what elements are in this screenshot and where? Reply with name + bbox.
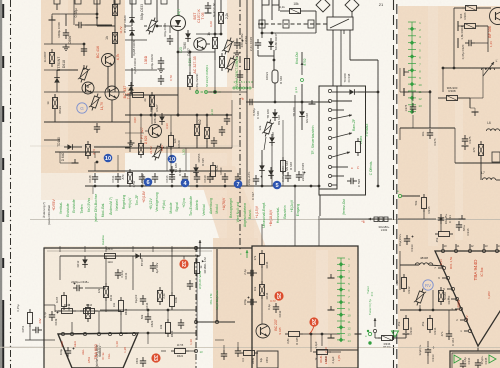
bluenum 10b (168, 155, 177, 164)
wire pin stub (71, 322, 73, 332)
capacitor extraR (410, 106, 416, 108)
resistor R640b (317, 350, 328, 355)
top connector boxes (262, 0, 269, 5)
resistor R633a (113, 5, 118, 16)
junction (196, 185, 199, 188)
pin trapezoid top (97, 332, 100, 335)
capacitor C632 (78, 22, 80, 28)
bluenum 7 (234, 180, 243, 189)
capacitor C640h (249, 99, 251, 105)
junction (377, 91, 380, 94)
wire (125, 39, 147, 41)
dash line pads (259, 20, 265, 28)
capacitor C320 (468, 40, 470, 46)
capacitor C634 (234, 42, 240, 44)
junction (442, 67, 445, 70)
capacitor C598 (350, 178, 352, 184)
wire (94, 162, 96, 171)
connector pin (328, 108, 331, 111)
faint horizontal scan line 2 (30, 145, 240, 147)
capacitor edge2 (250, 299, 252, 305)
tbar (49, 19, 56, 21)
wire (399, 68, 401, 92)
pin border (194, 349, 197, 352)
transistor BF306 (490, 8, 500, 25)
wire stub into box (105, 246, 107, 252)
junction (177, 51, 180, 54)
wire (125, 94, 178, 96)
beige region mid block (125, 87, 232, 153)
resistor (139, 144, 144, 155)
gnd (65, 44, 67, 47)
tbar (462, 145, 469, 147)
pin (373, 329, 376, 332)
junction (214, 33, 217, 36)
fold dash-dot line mid (239, 0, 241, 7)
wire stub into box (132, 246, 134, 252)
trimmer2 (224, 54, 238, 74)
arrow diode col (301, 62, 303, 75)
pin top edge (482, 249, 485, 252)
resistor R336b (382, 336, 393, 341)
pin trapezoid top (61, 332, 64, 335)
diode D620 (129, 18, 135, 23)
wire (257, 50, 259, 56)
diode vert (82, 259, 88, 264)
capacitor gap (221, 353, 227, 355)
wire (114, 47, 116, 53)
beige bottom middle box fill (252, 246, 358, 368)
wire hb (400, 309, 457, 311)
diode D647 (268, 41, 274, 46)
capacitor C376 (427, 132, 433, 134)
ltblue circle G (77, 103, 87, 113)
junction (261, 23, 264, 26)
capacitor C648b (76, 285, 78, 291)
coil L4 (481, 68, 494, 70)
wire (321, 334, 323, 346)
capacitor C over (81, 48, 87, 50)
capacitor bus row (139, 176, 145, 178)
relay box (327, 17, 353, 30)
bottom left box interior tint (44, 246, 196, 368)
resistor R337h (439, 232, 450, 237)
film edge mark (2, 210, 4, 222)
film edge mark (2, 158, 4, 170)
wire (131, 68, 133, 95)
pin left slope (468, 329, 471, 332)
capacitor C644 (140, 298, 146, 300)
wire (54, 94, 56, 97)
resistor R330 (404, 319, 409, 330)
wire (65, 14, 67, 26)
wire (310, 334, 312, 352)
wire hbus2 (400, 127, 455, 129)
wire (231, 100, 233, 148)
connector pin (328, 127, 331, 130)
capacitor extra (63, 32, 69, 34)
green pin chain middle box (340, 258, 342, 340)
wire (237, 248, 239, 342)
wire (332, 175, 344, 177)
junction (96, 13, 99, 16)
pin top edge (468, 249, 471, 252)
wire (56, 86, 58, 92)
wire (44, 339, 55, 341)
tbar mid1 (328, 277, 335, 279)
wire (85, 24, 112, 26)
wire (448, 310, 450, 330)
wire pin leads (332, 100, 352, 102)
inner border echo (47, 250, 212, 252)
wire (129, 92, 131, 152)
wire (44, 69, 57, 71)
junction (310, 185, 313, 188)
junction (294, 185, 297, 188)
junction (96, 161, 99, 164)
resistor R636 (113, 33, 118, 44)
junction (274, 101, 277, 104)
wire (125, 25, 132, 27)
capacitor bus row (207, 176, 213, 178)
junction (301, 101, 304, 104)
resistor R306v (356, 142, 361, 153)
junction (318, 185, 321, 188)
bluenum 10 (104, 154, 113, 163)
capacitor edge (250, 270, 252, 276)
connector stub top edge (114, 0, 120, 4)
wire (476, 7, 491, 9)
junction (141, 185, 144, 188)
diode (268, 170, 274, 175)
trimmer RVt (413, 287, 427, 307)
coil L7 (482, 178, 495, 180)
diode mid (193, 167, 199, 172)
resistor R336r (422, 198, 427, 209)
capacitor left (35, 327, 37, 333)
wire (85, 287, 106, 289)
wire (261, 20, 263, 38)
resistor R306a (466, 6, 477, 11)
capacitor (158, 78, 164, 80)
IC trapezoid TBA (58, 333, 138, 368)
red wire curve (309, 326, 314, 334)
rednum 26 (309, 317, 318, 326)
photodiode circle (171, 16, 186, 31)
beige region right big block (398, 6, 500, 368)
tbar side (457, 21, 459, 31)
resistor R620 (170, 296, 175, 307)
wire (440, 219, 442, 232)
wire hbus (443, 67, 500, 69)
wire (147, 310, 149, 313)
beige strip between bottom boxes (213, 238, 258, 368)
bottom middle box border (252, 246, 358, 368)
diode D649 (349, 89, 354, 95)
junction (156, 25, 159, 28)
tbar mid4 (355, 333, 362, 335)
green dots (233, 87, 235, 89)
pin trapezoid top (108, 332, 111, 335)
wire (97, 25, 115, 27)
faint line bottom (0, 346, 44, 348)
dashed control line (258, 23, 327, 25)
connector stub top edge (94, 0, 100, 4)
transistor PT927 (149, 125, 162, 138)
output box (450, 351, 500, 368)
junction (377, 185, 380, 188)
wire (220, 0, 222, 9)
wire (262, 32, 316, 34)
wire (76, 146, 82, 148)
ltblue RV (423, 280, 433, 290)
tbar (403, 333, 410, 335)
bus wire lower (85, 185, 319, 187)
rail wire (55, 310, 121, 312)
wire (399, 128, 401, 140)
signal line right (398, 218, 436, 220)
junction (432, 309, 435, 312)
wire box out (319, 195, 321, 216)
wire (189, 52, 191, 74)
wire (171, 248, 173, 294)
junction (154, 114, 157, 117)
beige faint vertical band (227, 0, 254, 247)
resistor R621 (158, 291, 163, 302)
wire (374, 333, 376, 338)
connector pin (328, 136, 331, 139)
pin trapezoid top (83, 332, 86, 335)
resistor left (28, 313, 33, 324)
wire stub into box (84, 246, 86, 252)
pin trapezoid top (70, 332, 73, 335)
connector pin (328, 117, 331, 120)
wire (44, 43, 84, 45)
tbar side2 (457, 38, 459, 48)
wire bus (125, 114, 232, 116)
wire (117, 155, 119, 171)
capacitor C333b (425, 349, 431, 351)
wire (454, 7, 466, 9)
wire (161, 124, 163, 126)
green pins right (368, 332, 371, 335)
capacitor bus row (169, 176, 175, 178)
capacitor (285, 175, 291, 177)
wire (264, 137, 266, 150)
resistor 12k (150, 96, 155, 107)
wire (183, 256, 185, 259)
rednum 33 (151, 353, 160, 362)
trimmer R (145, 16, 159, 36)
junction (214, 91, 217, 94)
connector stub top edge (161, 0, 167, 4)
resistor R337b (428, 319, 433, 330)
bus y102 (247, 101, 330, 103)
transistor BC337 T05 (105, 86, 119, 100)
wire (332, 30, 334, 86)
wire y310 (100, 309, 196, 311)
capacitor C655 (65, 350, 71, 352)
diode (128, 86, 134, 91)
junction (83, 43, 86, 46)
capacitor C642 (273, 306, 279, 308)
wire (196, 256, 198, 340)
wire (145, 130, 149, 132)
wire (206, 43, 210, 45)
wire (114, 0, 116, 92)
wire (476, 25, 488, 27)
wire (87, 85, 89, 88)
diode TB180 GN648 (299, 111, 305, 116)
capacitor extra3 (167, 38, 173, 40)
resistor R634 (213, 38, 218, 49)
tbar chain (403, 68, 405, 76)
scanner edge strip (0, 0, 2, 368)
wire (196, 321, 235, 323)
wire (131, 0, 133, 14)
wire (239, 70, 241, 71)
connector stub top edge (130, 0, 136, 4)
junction (94, 185, 97, 188)
capacitor bus row (152, 176, 158, 178)
wire (111, 100, 113, 122)
light streak (60, 0, 68, 170)
connector pin (328, 146, 331, 149)
wire relay down (349, 30, 351, 60)
wire (151, 92, 153, 95)
resistor R613 (86, 308, 91, 319)
wire (396, 337, 406, 339)
arrow pin2 (332, 133, 352, 138)
green pin e (367, 330, 369, 332)
wire (303, 333, 340, 335)
wire (252, 0, 254, 88)
capacitor (224, 118, 230, 120)
wire (475, 42, 488, 44)
pin left slope (446, 276, 449, 279)
resistor (195, 125, 200, 136)
arrow L4 (483, 62, 494, 76)
junction dots bus115 (140, 114, 143, 117)
beige small patch under left block (41, 166, 93, 200)
pin on border (194, 246, 197, 249)
wire (55, 151, 100, 153)
resistor Rh (465, 24, 476, 29)
transistor BC237 (256, 324, 270, 338)
capacitor C637 (253, 178, 259, 180)
tbar (72, 162, 79, 164)
resistor R332 (402, 278, 407, 289)
film edge mark (2, 300, 4, 368)
junction (171, 185, 174, 188)
beige diagonal swath (196, 166, 266, 247)
connector outer box (319, 86, 366, 195)
capacitor in box (475, 362, 481, 364)
trimmer big (221, 36, 235, 56)
bottom left box border (44, 248, 252, 368)
capacitor bus row (92, 176, 98, 178)
arrow pin (332, 115, 352, 119)
wire (59, 152, 61, 163)
resistor R648 slant (261, 118, 274, 138)
pin on wire (215, 320, 218, 323)
wire stub into box (171, 246, 173, 252)
capacitor band (237, 74, 243, 76)
capacitor bus row (194, 176, 200, 178)
resistor R308 (447, 96, 458, 101)
wire stub into box (59, 246, 61, 252)
wire (271, 140, 273, 186)
diode D629 (129, 31, 135, 36)
resistor rail2 (84, 309, 95, 314)
resistor R633 (86, 145, 91, 156)
wire (44, 121, 130, 123)
capacitor C619 (140, 360, 146, 362)
wire (132, 256, 134, 290)
capacitor C331 (438, 217, 444, 219)
wire (332, 0, 334, 17)
wire (206, 115, 208, 126)
coil 48438 (415, 263, 433, 265)
wire (56, 70, 58, 74)
wire (92, 186, 94, 194)
wire (301, 120, 303, 130)
tbar bus (309, 103, 316, 105)
bluenum 4 (181, 179, 190, 188)
wire (427, 341, 429, 346)
wire (94, 146, 130, 148)
wire (156, 0, 158, 22)
wire (400, 264, 419, 266)
resistor mid (188, 76, 193, 87)
resistor R645 (289, 332, 300, 337)
capacitor bus row (235, 176, 241, 178)
bluenum 6 (144, 178, 153, 187)
resistor (205, 128, 210, 139)
wire (196, 115, 198, 122)
wire (214, 0, 216, 34)
wire (73, 0, 75, 25)
wire (150, 95, 152, 112)
capacitor C649 (49, 314, 55, 316)
junction (147, 332, 150, 335)
resistor R620c (166, 323, 171, 334)
gnd (236, 50, 238, 53)
junction (261, 32, 264, 35)
diode (269, 137, 275, 142)
wire (282, 120, 284, 186)
wire (208, 91, 247, 93)
wire (487, 26, 489, 52)
wire (107, 67, 109, 92)
small box (492, 152, 500, 162)
wire (318, 216, 320, 246)
capacitor C364 (446, 333, 452, 335)
connector pin (328, 174, 331, 177)
capacitor bus row (222, 176, 228, 178)
wire (223, 345, 225, 350)
diode D618 (54, 78, 60, 83)
wire hbus3 (455, 162, 500, 164)
wire (261, 224, 263, 246)
green pin chain right top (411, 22, 413, 112)
wire (83, 65, 85, 70)
wire (169, 26, 171, 33)
green arrow bottom (246, 250, 248, 258)
resistor R612 (62, 296, 67, 307)
inner box vertical (216, 249, 218, 322)
film edge mark (2, 4, 4, 18)
